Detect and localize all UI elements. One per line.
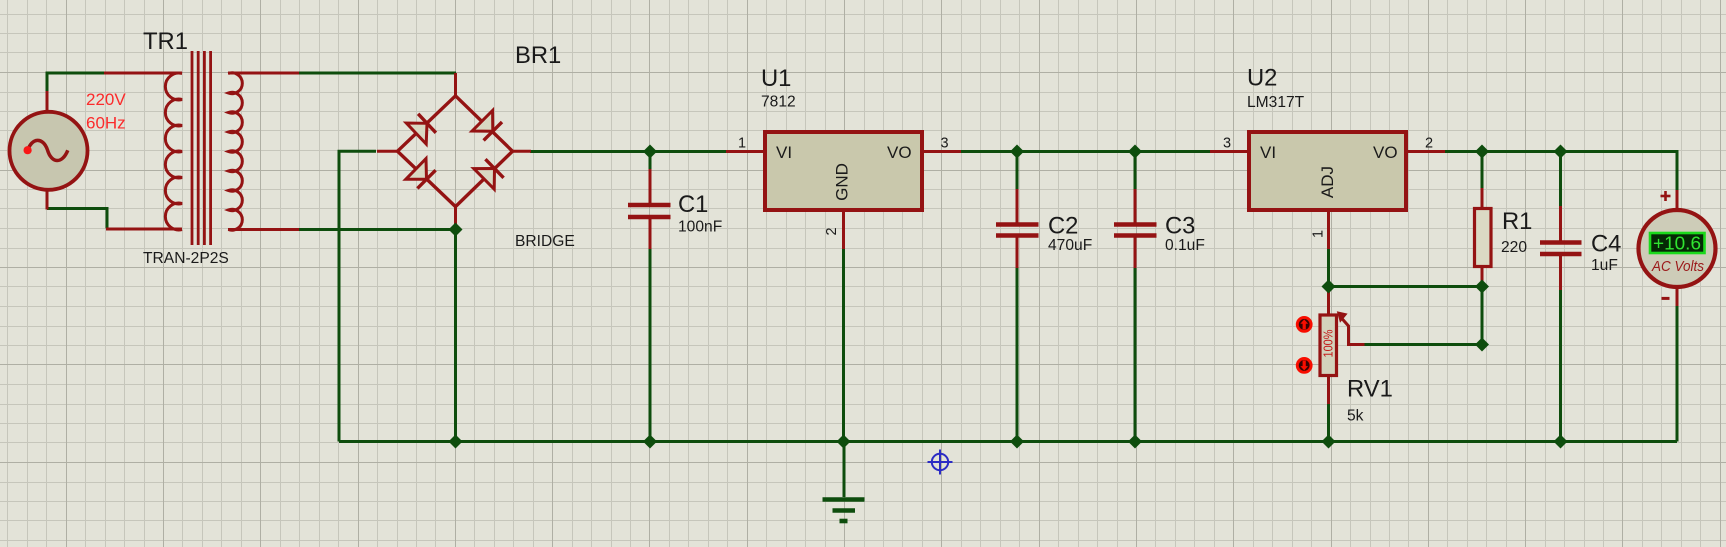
wire C4 bottom to ground rail [1559, 289, 1562, 442]
RV1 wiper [1341, 318, 1365, 345]
wire top-left horizontal V1 to TR1 [47, 73, 105, 92]
RV1 bottom lead [1327, 375, 1330, 404]
svg-text:VI: VI [776, 143, 792, 162]
AC source V1 [10, 91, 88, 210]
TR1 core [192, 51, 211, 245]
svg-text:RV1: RV1 [1347, 376, 1393, 403]
wire V1 bottom to TR1 primary bottom [47, 209, 107, 229]
potentiometer RV1 [1297, 285, 1364, 404]
RV1 up button [1297, 318, 1311, 332]
BR1 diode D2 upper-right [472, 111, 502, 141]
svg-text:3: 3 [940, 136, 948, 152]
svg-text:100nF: 100nF [678, 219, 722, 236]
TR1 primary winding [165, 73, 182, 230]
voltmeter LCD [1650, 233, 1705, 253]
svg-text:60Hz: 60Hz [86, 114, 126, 133]
junction R1 bottom [1475, 280, 1489, 294]
svg-text:U2: U2 [1247, 65, 1277, 92]
svg-text:TRAN-2P2S: TRAN-2P2S [143, 250, 229, 267]
junction C3 ground [1128, 435, 1142, 449]
wire voltmeter bottom to ground rail [1676, 304, 1679, 442]
U2 body [1249, 132, 1406, 210]
junction R1 top [1475, 145, 1489, 159]
wire BR1 left vertex to ground rail [339, 151, 376, 441]
junction C4 top [1554, 145, 1568, 159]
voltmeter top lead [1676, 190, 1679, 211]
capacitor C2 [996, 189, 1039, 268]
wire U2 VO to output branch [1444, 152, 1677, 192]
svg-text:C1: C1 [678, 191, 708, 218]
BR1 left pin stub [377, 150, 398, 153]
svg-text:1: 1 [1311, 230, 1327, 238]
svg-text:U1: U1 [761, 65, 791, 92]
junction C3 top [1128, 145, 1142, 159]
U1 pin 1 [726, 150, 765, 153]
capacitor C3 [1114, 189, 1157, 268]
TR1 secondary bottom pin [228, 228, 299, 231]
junction C2 ground [1010, 435, 1024, 449]
voltmeter body [1639, 210, 1716, 287]
wire C4 top lead [1559, 152, 1562, 209]
wire BR1 bottom to ground rail [454, 230, 457, 442]
U1 body [765, 132, 922, 210]
junction RV1 ground [1322, 435, 1336, 449]
RV1 down button [1297, 359, 1311, 373]
wire C3 top lead [1134, 152, 1137, 192]
TR1 secondary top pin [228, 72, 299, 75]
svg-text:470uF: 470uF [1048, 237, 1092, 254]
wire C1 bottom to ground rail [649, 247, 652, 442]
junction wiper node [1475, 338, 1489, 352]
wire U1 VO to U2 VI [960, 150, 1211, 153]
TR1 primary top pin [104, 72, 182, 75]
TR1 secondary winding [228, 73, 242, 230]
wire C2 top lead [1016, 152, 1019, 192]
voltmeter plus sign [1661, 191, 1671, 201]
junction C4 ground [1554, 435, 1568, 449]
junction ADJ node [1322, 280, 1336, 294]
regulator U2 LM317T [1210, 132, 1445, 249]
BR1 right pin stub [513, 150, 532, 153]
svg-text:VO: VO [887, 143, 912, 162]
U1 pin 2 [842, 210, 845, 249]
junction C2 top [1010, 145, 1024, 159]
junction BR1 bottom [449, 223, 463, 237]
svg-text:C2: C2 [1048, 213, 1078, 240]
wire ground rail bottom [339, 440, 1677, 443]
resistor R1 [1475, 188, 1492, 287]
wire TR1 secondary bottom to BR1 bottom junction [297, 228, 454, 231]
junction U1 ground [837, 435, 851, 449]
U2 pin 2 [1406, 150, 1445, 153]
svg-text:2: 2 [824, 227, 840, 235]
svg-text:1: 1 [738, 136, 746, 152]
svg-text:220: 220 [1501, 239, 1527, 256]
wire node ADJ to R1 bottom [1329, 285, 1483, 288]
wire wiper horizontal [1363, 343, 1482, 346]
svg-text:AC Volts: AC Volts [1651, 258, 1704, 275]
svg-text:ADJ: ADJ [1318, 166, 1337, 198]
BR1 diode D4 lower-right [474, 159, 504, 189]
transformer TR1 [104, 51, 299, 245]
svg-text:GND: GND [833, 163, 852, 201]
wire C2 bottom to ground rail [1016, 267, 1019, 442]
svg-text:C4: C4 [1591, 231, 1621, 258]
wire R1 bottom down to wiper line [1481, 287, 1484, 345]
wire C1 top lead [649, 152, 652, 172]
TR1 primary bottom pin [106, 228, 182, 231]
svg-text:220V: 220V [86, 90, 126, 109]
svg-text:0.1uF: 0.1uF [1165, 237, 1205, 254]
BR1 top pin stub [454, 73, 457, 96]
junction C1 ground [643, 435, 657, 449]
junction BR1 ground rail [449, 435, 463, 449]
svg-text:5k: 5k [1347, 408, 1364, 425]
RV1 body [1320, 315, 1337, 376]
voltmeter bottom lead [1676, 286, 1679, 306]
wire RV1 bottom to ground rail [1327, 403, 1330, 442]
svg-text:100%: 100% [1321, 329, 1336, 357]
svg-text:C3: C3 [1165, 213, 1195, 240]
RV1 top lead [1327, 285, 1330, 316]
svg-text:BR1: BR1 [515, 42, 561, 69]
U1 pin 3 [922, 150, 961, 153]
svg-text:2: 2 [1425, 136, 1433, 152]
svg-text:7812: 7812 [761, 94, 796, 111]
svg-text:R1: R1 [1502, 208, 1532, 235]
capacitor C1 [628, 169, 671, 249]
junction C1 top [643, 145, 657, 159]
wire TR1 secondary top to BR1 top [297, 72, 456, 75]
capacitor C4 [1540, 206, 1582, 290]
wire U1 GND pin to ground rail [842, 248, 845, 442]
bridge BR1 [377, 73, 531, 230]
BR1 diode D3 lower-left [406, 159, 436, 189]
svg-text:TR1: TR1 [143, 28, 188, 55]
BR1 diamond [398, 96, 513, 207]
wire C3 bottom to ground rail [1134, 267, 1137, 442]
U2 pin 3 [1210, 150, 1249, 153]
voltmeter [1639, 190, 1716, 306]
wire R1 top lead [1481, 152, 1484, 191]
U2 pin 1 [1327, 210, 1330, 249]
svg-text:3: 3 [1223, 136, 1231, 152]
wire BR1 right vertex to U1 VI [530, 150, 727, 153]
BR1 diode D1 upper-left [406, 114, 436, 144]
svg-text:1uF: 1uF [1591, 257, 1618, 274]
BR1 bottom pin stub [454, 207, 457, 230]
regulator U1 7812 [726, 132, 961, 249]
svg-text:+10.6: +10.6 [1653, 234, 1701, 254]
svg-text:BRIDGE: BRIDGE [515, 233, 575, 250]
svg-text:VI: VI [1260, 143, 1276, 162]
wire U2 ADJ pin to node [1327, 248, 1330, 287]
svg-text:VO: VO [1373, 143, 1398, 162]
ground [823, 442, 865, 522]
origin marker [928, 450, 953, 475]
voltmeter minus sign [1662, 297, 1670, 300]
svg-text:LM317T: LM317T [1247, 94, 1305, 111]
